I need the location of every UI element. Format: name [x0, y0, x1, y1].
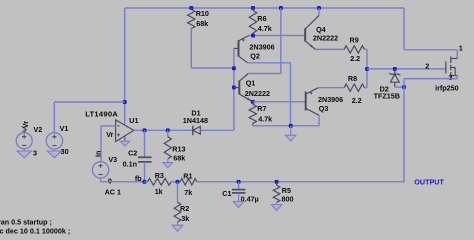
svg-text:4.7k: 4.7k: [258, 115, 272, 124]
value AC 1 of V3: [105, 188, 121, 197]
label R10: [196, 9, 209, 18]
svg-text:R8: R8: [348, 74, 357, 83]
resistor R9: [344, 46, 364, 53]
model 2N3906 of Q2: [249, 42, 274, 51]
wire M1 source horizontal: [404, 78, 457, 80]
voltage source V2: [16, 133, 32, 149]
diode D1 1N4148: [193, 126, 201, 136]
svg-text:c dec 10 0.1 10000k ;: c dec 10 0.1 10000k ;: [0, 227, 70, 236]
node junction Q1 emitter: [251, 100, 255, 104]
resistor R3: [148, 178, 172, 185]
svg-text:2N2222: 2N2222: [313, 33, 338, 42]
node junction rail Q4 collector: [317, 6, 321, 10]
svg-text:V1: V1: [60, 124, 69, 133]
pin 1 of M1: [459, 43, 463, 52]
value 4.7k of R7: [258, 115, 272, 124]
pin 3 of M1: [449, 73, 453, 82]
value 0.1n of C2: [123, 159, 137, 168]
svg-text:OUTPUT: OUTPUT: [414, 178, 444, 187]
resistor R10: [188, 8, 195, 68]
node junction R10 bias: [232, 66, 236, 70]
value 0 of V3: [108, 176, 112, 185]
wire Q3 emitter to R8: [318, 87, 344, 89]
wire V1 top vertical: [53, 102, 55, 133]
svg-text:68k: 68k: [173, 154, 185, 163]
wire Q1 collector horizontal: [248, 73, 281, 75]
label C2: [128, 149, 137, 158]
svg-text:30: 30: [61, 147, 69, 156]
svg-text:1N4148: 1N4148: [183, 116, 208, 125]
value 3k of R2: [181, 214, 189, 223]
svg-text:ran 0.5 startup ;: ran 0.5 startup ;: [0, 218, 52, 227]
svg-text:2.2: 2.2: [350, 54, 360, 63]
svg-text:0: 0: [108, 176, 112, 185]
spice directive ac: [0, 227, 70, 236]
wire Q2 collector drop: [290, 63, 292, 126]
node junction D2 cathode: [393, 67, 397, 71]
ground below V2: [17, 149, 31, 158]
value 2.2 of R8: [352, 96, 362, 105]
node junction R9 R8: [365, 67, 369, 71]
wire U1 output: [134, 129, 193, 131]
net flag Vr at V2: [21, 121, 30, 133]
svg-text:C2: C2: [128, 149, 137, 158]
svg-text:Q1: Q1: [246, 79, 256, 88]
svg-text:fb: fb: [135, 174, 142, 183]
net label OUTPUT: [414, 178, 444, 187]
wire R8 to gate node: [364, 69, 367, 88]
value 68k of R10: [196, 19, 208, 28]
wire U1 inverting input: [101, 125, 116, 127]
node junction rail R6: [251, 6, 255, 10]
wire Q4 collector vertical: [318, 8, 320, 15]
wire In vertical: [100, 126, 102, 162]
wire Q2 collector horizontal: [248, 62, 291, 64]
svg-text:68k: 68k: [196, 19, 208, 28]
value 2.2 of R9: [350, 54, 360, 63]
label Q4: [316, 25, 326, 34]
node junction R5 top: [275, 180, 279, 184]
wire Q2 emitter to Q4 base: [249, 35, 305, 37]
transistor Q2 2N3906: [234, 36, 249, 63]
svg-text:C1: C1: [222, 189, 231, 198]
model 1N4148 of D1: [183, 116, 208, 125]
transistor Q4 2N2222: [305, 15, 319, 49]
svg-text:800: 800: [282, 195, 294, 204]
ground at U1 V-: [120, 141, 130, 146]
wire R9 to gate node: [364, 49, 367, 69]
svg-text:Vr: Vr: [106, 130, 113, 139]
wire M1 source to output: [403, 79, 405, 182]
wire V1 top horizontal: [54, 101, 124, 103]
label Q1: [246, 79, 256, 88]
capacitor C1: [232, 182, 246, 202]
svg-text:7k: 7k: [184, 188, 192, 197]
label R1: [183, 171, 192, 180]
label R2: [180, 204, 189, 213]
wire fb to R3: [145, 181, 148, 183]
label irfp250: [435, 83, 459, 92]
label R6: [257, 14, 266, 23]
svg-text:R13: R13: [172, 144, 185, 153]
model 2N3906 of Q3: [318, 95, 343, 104]
ground below V1: [47, 149, 61, 158]
svg-text:R2: R2: [180, 204, 189, 213]
voltage source V3: [92, 162, 108, 178]
node junction rail Q1 collector: [279, 6, 283, 10]
ground below R13: [163, 163, 173, 168]
wire top supply rail: [125, 7, 404, 9]
net label fb: [135, 174, 142, 183]
model TFZ15B of D2: [374, 92, 400, 101]
value 7k of R1: [184, 188, 192, 197]
label R13: [172, 144, 185, 153]
svg-text:0.1n: 0.1n: [123, 159, 137, 168]
node junction fb: [143, 180, 147, 184]
label R8: [348, 74, 357, 83]
wire R7 bottom to Q3 collector: [253, 125, 319, 127]
wire Q3 collector drop: [318, 115, 320, 126]
node junction rail R10: [189, 6, 193, 10]
svg-text:Q3: Q3: [319, 104, 329, 113]
transistor Q3 2N3906: [306, 88, 319, 116]
value 4.7k of R6: [258, 24, 272, 33]
node junction R2 top: [176, 180, 180, 184]
label C1: [222, 189, 231, 198]
label LT1490A: [85, 110, 118, 119]
capacitor C2: [138, 130, 152, 182]
svg-text:R6: R6: [257, 14, 266, 23]
ground below C1: [233, 202, 243, 208]
label V1: [60, 124, 69, 133]
node junction C2 top: [143, 128, 147, 132]
resistor R8: [344, 84, 364, 91]
wire D2 anode: [395, 86, 404, 88]
value 1k of R3: [155, 187, 163, 196]
label R3: [155, 171, 164, 180]
svg-text:U1: U1: [129, 116, 138, 125]
svg-text:V3: V3: [108, 155, 117, 164]
transistor Q1 2N2222: [234, 74, 253, 102]
label V2: [34, 125, 43, 134]
node junction V1 to U1 V+: [123, 100, 127, 104]
label Q2: [250, 52, 260, 61]
svg-text:TFZ15B: TFZ15B: [374, 92, 400, 101]
op-amp U1 LT1490A: [116, 120, 134, 142]
resistor R13: [164, 130, 171, 162]
wire rail left drop to U1 V+: [124, 8, 126, 125]
node junction ground node: [289, 124, 293, 128]
node junction R6 bottom: [251, 34, 255, 38]
svg-text:Q2: Q2: [250, 52, 260, 61]
model 2N2222 of Q4: [313, 33, 338, 42]
wire R3 to R1: [171, 181, 180, 183]
svg-text:V2: V2: [34, 125, 43, 134]
svg-text:R7: R7: [257, 104, 266, 113]
resistor R5: [273, 182, 280, 205]
svg-text:irfp250: irfp250: [435, 83, 459, 92]
mosfet M1 irfp250: [446, 50, 458, 79]
svg-text:AC 1: AC 1: [105, 188, 121, 197]
wire D1 anode to bias node: [200, 129, 234, 131]
value 68k of R13: [173, 154, 185, 163]
svg-text:1: 1: [459, 43, 463, 52]
ground at R7/Q3 node: [286, 126, 296, 141]
svg-text:4.7k: 4.7k: [258, 24, 272, 33]
wire rail right drop: [403, 8, 405, 50]
wire gate: [367, 68, 446, 70]
svg-text:R9: R9: [350, 35, 359, 44]
label D1: [191, 109, 200, 118]
svg-text:R3: R3: [155, 171, 164, 180]
resistor R2: [174, 182, 181, 225]
wire V3 bottom: [101, 178, 145, 182]
label Q3: [319, 104, 329, 113]
resistor R1: [180, 179, 197, 186]
node junction Q1 base: [232, 85, 236, 89]
ground below R5: [271, 205, 281, 211]
spice directive tran: [0, 218, 52, 227]
svg-text:LT1490A: LT1490A: [85, 110, 118, 119]
svg-text:1k: 1k: [155, 187, 163, 196]
value 800 of R5: [282, 195, 294, 204]
wire R10 bottom to bias node: [191, 67, 234, 69]
model 2N2222 of Q1: [245, 89, 270, 98]
svg-text:3: 3: [33, 148, 37, 157]
label R7: [257, 104, 266, 113]
resistor R7: [249, 102, 256, 126]
label V3: [108, 155, 117, 164]
net label Vr at U1 plus input: [106, 130, 113, 139]
wire bias vertical Q2 base to D1: [233, 48, 235, 130]
wire Q1 collector vertical: [280, 8, 282, 74]
node junction D2 anode: [402, 85, 406, 89]
value 3 of V2: [33, 148, 37, 157]
svg-text:2N3906: 2N3906: [318, 95, 343, 104]
svg-text:2N3906: 2N3906: [249, 42, 274, 51]
value 0.47u of C1: [241, 195, 259, 204]
resistor R6: [249, 8, 256, 36]
wire Q1 emitter to Q3 base: [253, 101, 306, 103]
svg-text:R1: R1: [183, 171, 192, 180]
diode D2 TFZ15B: [389, 69, 400, 87]
wire rail to M1 drain: [404, 49, 457, 51]
svg-text:Vr: Vr: [21, 121, 30, 128]
node junction R13 top: [166, 128, 170, 132]
svg-text:In: In: [95, 151, 102, 157]
ground below R2: [172, 225, 182, 231]
svg-text:3k: 3k: [181, 214, 189, 223]
svg-text:3: 3: [449, 73, 453, 82]
svg-text:2: 2: [425, 62, 429, 71]
svg-text:2.2: 2.2: [352, 96, 362, 105]
value 30 of V1: [61, 147, 69, 156]
label R5: [282, 186, 291, 195]
label D2: [380, 85, 389, 94]
voltage source V1: [46, 133, 62, 149]
label U1: [129, 116, 138, 125]
label R9: [350, 35, 359, 44]
net flag In: [95, 151, 102, 157]
svg-text:2N2222: 2N2222: [245, 89, 270, 98]
node junction C1 top: [237, 180, 241, 184]
svg-text:R10: R10: [196, 9, 209, 18]
wire Q4 emitter to R9: [316, 48, 345, 50]
pin 2 of M1: [425, 62, 429, 71]
wire output net: [197, 181, 404, 183]
